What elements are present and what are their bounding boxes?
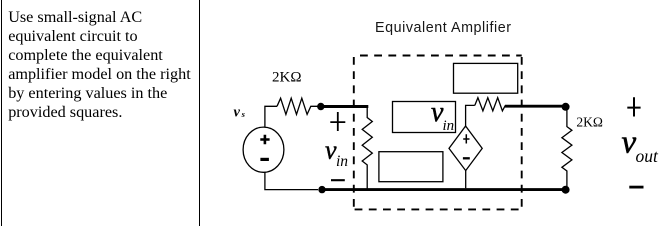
svg-text:s: s (241, 109, 246, 119)
svg-text:in: in (336, 153, 348, 170)
svg-text:v: v (234, 104, 241, 120)
svg-text:2KΩ: 2KΩ (576, 115, 603, 130)
svg-text:v: v (622, 125, 637, 161)
svg-text:2KΩ: 2KΩ (272, 70, 301, 86)
svg-text:out: out (636, 146, 660, 166)
svg-text:in: in (443, 118, 455, 134)
